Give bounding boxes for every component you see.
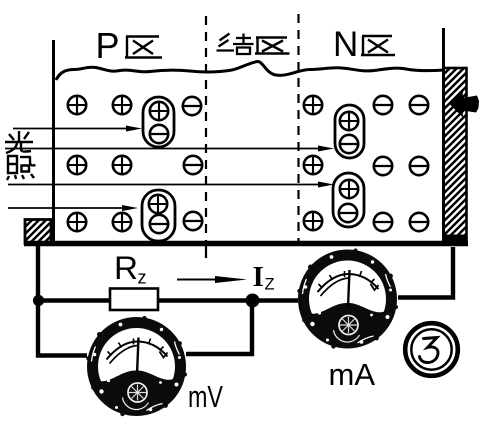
svg-text:R: R <box>114 250 138 286</box>
svg-text:mV: mV <box>188 379 223 414</box>
svg-text:mA: mA <box>329 357 376 392</box>
svg-text:Z: Z <box>265 276 275 294</box>
svg-text:P: P <box>96 25 120 66</box>
svg-text:I: I <box>253 261 264 293</box>
svg-text:z: z <box>138 268 147 288</box>
svg-text:N: N <box>333 25 358 64</box>
